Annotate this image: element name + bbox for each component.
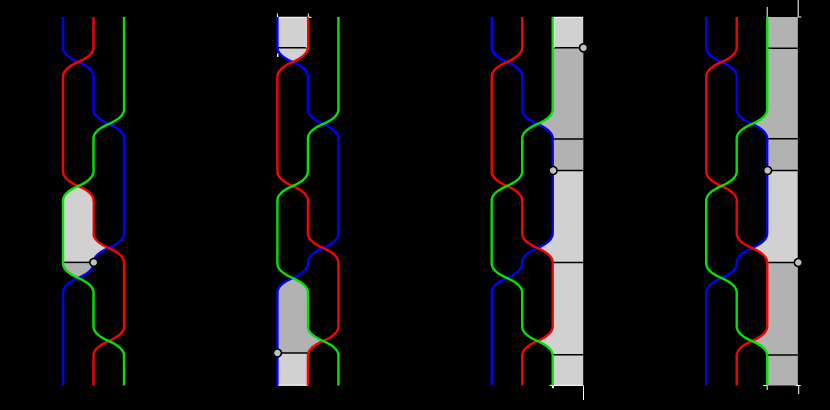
panel 3 white cut mark band top edge: [553, 16, 584, 18]
panel 4 white cut tick above left of band: [766, 7, 768, 17]
panel 2 pale cut line along red in top face: [305, 17, 307, 48]
panel 3 pale cut line along green in band top segment: [553, 17, 555, 48]
panel 4 outer band face (light): [752, 17, 798, 386]
panel 3 band edge line D: [553, 262, 584, 264]
panel 1 node circle on blue strand: [90, 258, 98, 266]
panel 1 marked sub-face below dual edge (dark): [63, 262, 94, 278]
panel 3 white nub below green at bottom edge: [552, 386, 554, 388]
panel 4 node circle at right edge of line D: [794, 259, 802, 267]
panel 2 dual edge at bottom face: [277, 352, 308, 354]
panel 4 band edge line B: [767, 138, 798, 140]
panel 2 white tick above blue at top edge: [276, 14, 278, 18]
panel 4 node circle on blue strand at line C: [764, 167, 772, 175]
panel 3 white cut mark vertical below right edge: [583, 386, 585, 401]
panel 2 dual edge at top face: [277, 47, 308, 49]
panel 2 strand green (wire): [277, 17, 338, 386]
panel 1 dual edge (horizontal black line): [62, 261, 94, 263]
panel 4 band edge line E: [767, 354, 798, 356]
panel 1 strand green (wire): [63, 17, 124, 386]
panel 4 strand green (wire): [706, 17, 767, 386]
panel 3 strand green (wire): [492, 17, 553, 386]
panel 3 band edge line A: [553, 47, 584, 49]
panel 4 marked band segment top (dark): [752, 17, 798, 171]
panel 1 strand red (wire): [63, 17, 124, 386]
panel 4 marked band segment bottom (dark): [752, 263, 798, 386]
panel 2 node circle on blue strand: [273, 349, 281, 357]
panel 2 bottom boundary face (light): [277, 353, 308, 386]
panel 4 white cut tick above right edge: [798, 0, 801, 17]
panel 2 strand blue (wire): [277, 17, 338, 386]
panel 3 white cut mark band bottom edge: [550, 384, 584, 386]
panel 3 outer band face (light): [537, 17, 583, 386]
panel 3 marked band segment (dark): [537, 48, 583, 171]
panel 4 strand red (wire): [706, 17, 767, 386]
panel 2 white cut mark bottom edge: [277, 384, 308, 386]
panel 1 pale cut line along red in face: [91, 201, 93, 234]
panel 4 strand blue (wire): [706, 17, 767, 386]
panel 2 white cut mark top edge: [277, 16, 311, 18]
panel 2 strand red (wire): [277, 17, 338, 386]
panel 4 white cut tick below left of band: [763, 386, 768, 391]
panel 4 band edge line C: [767, 170, 798, 172]
panel 3 strand blue (wire): [492, 17, 553, 386]
panel 2 white nub on blue below top line: [277, 54, 279, 58]
panel 1 strand blue (wire): [63, 17, 124, 386]
panel 4 white cut tick below right edge: [796, 386, 801, 395]
panel 4 band edge line D: [767, 262, 798, 264]
panel 2 white tick above red at top edge: [307, 14, 309, 18]
panel 4 band edge line A: [767, 47, 798, 49]
panel 3 node circle at right edge of line A: [580, 44, 588, 52]
panel 3 strand red (wire): [492, 17, 553, 386]
panel 3 node circle on blue strand at line C: [549, 167, 557, 175]
panel 2 top boundary face (light): [277, 17, 308, 62]
panel 3 band edge line E: [553, 354, 584, 356]
panel 3 band edge line C: [553, 170, 584, 172]
panel 1 shaded face between crossings 3 and 5 (light): [63, 186, 109, 263]
panel 2 marked face from crossing 5 to dual edge (dark): [277, 278, 323, 353]
panel 3 band edge line B: [553, 138, 584, 140]
